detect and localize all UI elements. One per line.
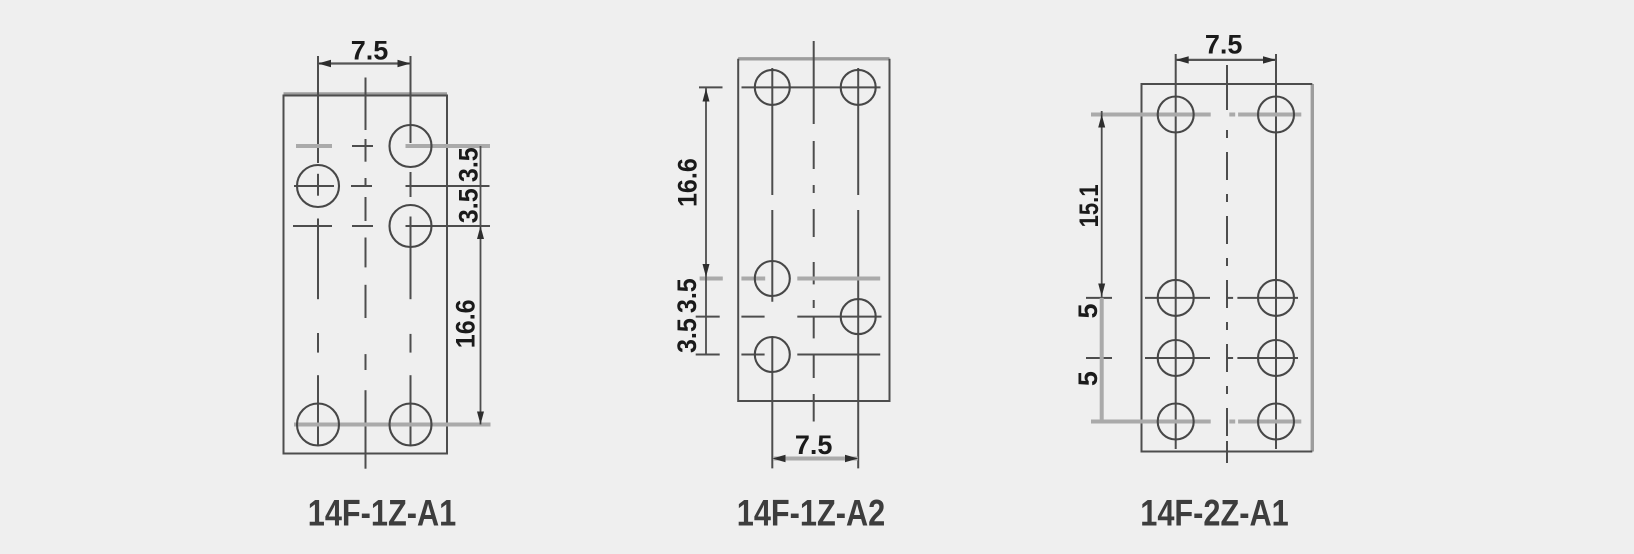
bottom dimension 7.5 D2: right arrow bbox=[845, 455, 858, 462]
hole row3 right D2 bbox=[841, 299, 876, 334]
dimension 7.5 top D3: dimension line bbox=[1176, 59, 1276, 61]
row4 centerline gray line D1 bbox=[294, 423, 491, 427]
dimension 16.6 top arrow D1 bbox=[477, 226, 484, 239]
left chain dimension line D2 bbox=[705, 88, 707, 355]
hole row2 left D3 bbox=[1158, 280, 1194, 316]
svg-text:3.5: 3.5 bbox=[453, 147, 484, 182]
center line (vertical dash-dot) D3 bbox=[1226, 65, 1228, 110]
dimension 15.1 bottom arrow D3 bbox=[1098, 284, 1105, 297]
row1 centerline gray segment right (extension for 3.5) D1 bbox=[406, 144, 491, 148]
hole top-right D1 bbox=[390, 125, 432, 167]
svg-text:14F-2Z-A1: 14F-2Z-A1 bbox=[1140, 493, 1288, 534]
relay outline rectangle 14F-1Z-A2 bbox=[738, 59, 889, 401]
hole middle-right D1 bbox=[390, 205, 432, 247]
svg-text:15.1: 15.1 bbox=[1075, 184, 1105, 227]
row2 centerline dash at center D1 bbox=[351, 185, 372, 187]
row1 extension tick D2 bbox=[699, 86, 723, 88]
center line (vertical dash-dot) D1 bbox=[365, 78, 367, 131]
svg-text:3.5: 3.5 bbox=[671, 318, 702, 353]
hole row1 right D3 bbox=[1258, 97, 1294, 133]
row2 hole crosshair horizontal D1 bbox=[294, 185, 334, 187]
row4 centerline segments D2 bbox=[696, 354, 720, 356]
row2 extension line to dimension D1 bbox=[406, 185, 490, 187]
bottom dimension 7.5 D2: gray dimension line bbox=[773, 457, 858, 461]
dimension 16.6 bottom arrow D1 bbox=[477, 412, 484, 425]
relay outline rectangle 14F-1Z-A1 bbox=[284, 94, 448, 454]
center line (vertical) D2 solid top part bbox=[813, 41, 815, 124]
svg-text:16.6: 16.6 bbox=[672, 158, 703, 207]
dimension 15.1 top arrow D3 bbox=[1098, 115, 1105, 128]
left pin column center line D2 bbox=[771, 68, 773, 195]
svg-text:7.5: 7.5 bbox=[1205, 30, 1243, 60]
row3 centerline segments D2 bbox=[696, 316, 720, 318]
relay outline rectangle 14F-2Z-A1 bbox=[1142, 84, 1313, 452]
row1 centerline gray segment left D1 bbox=[296, 144, 332, 148]
hole row1 left D3 bbox=[1158, 97, 1194, 133]
dimension 7.5 top D3: right arrow bbox=[1263, 56, 1276, 63]
hole middle-left D1 bbox=[297, 165, 339, 207]
hole row1 right D2 bbox=[841, 70, 876, 105]
left pin column center line D3 bbox=[1175, 54, 1177, 449]
svg-text:7.5: 7.5 bbox=[795, 430, 833, 460]
row3 centerline dash at center D1 bbox=[352, 225, 373, 227]
hole row4 left D2 bbox=[755, 337, 790, 372]
row3 left column dash D1 bbox=[293, 225, 332, 227]
hole bottom-left D1 bbox=[297, 404, 339, 446]
center line (vertical dash-dot) D2 bbox=[813, 141, 815, 169]
row2 centerline segments D3 bbox=[1086, 297, 1112, 299]
svg-text:16.6: 16.6 bbox=[450, 299, 481, 348]
hole row2 right D3 bbox=[1258, 280, 1294, 316]
bottom dimension 7.5 D2: left arrow bbox=[772, 455, 785, 462]
dimension 7.5 top D1: left arrow bbox=[318, 60, 331, 67]
row1 crosshair horizontal D2 bbox=[742, 86, 881, 88]
dimension 7.5 top D3: left arrow bbox=[1176, 56, 1189, 63]
hole row1 left D2 bbox=[755, 70, 790, 105]
svg-text:14F-1Z-A2: 14F-1Z-A2 bbox=[737, 493, 885, 534]
row1 gray centerline D3 bbox=[1091, 113, 1211, 117]
hole row4 left D3 bbox=[1158, 404, 1194, 440]
svg-text:3.5: 3.5 bbox=[453, 188, 484, 223]
svg-text:7.5: 7.5 bbox=[351, 36, 389, 66]
right pin column center line D3 bbox=[1275, 54, 1277, 449]
dimension 7.5 top D1: dimension line bbox=[318, 62, 411, 64]
row3 centerline segments D3 bbox=[1086, 357, 1112, 359]
hole row3 left D3 bbox=[1158, 340, 1194, 376]
left dimension 15.1 line D3 bbox=[1101, 111, 1103, 298]
row4 gray centerline D3 bbox=[1091, 420, 1211, 424]
right pin column center line D1 bbox=[410, 56, 412, 143]
dimension 16.6 top arrow D2 bbox=[703, 89, 710, 102]
svg-text:3.5: 3.5 bbox=[671, 278, 702, 313]
svg-text:14F-1Z-A1: 14F-1Z-A1 bbox=[308, 493, 456, 534]
svg-text:5: 5 bbox=[1073, 371, 1103, 386]
row3 extension line to dimension D1 bbox=[406, 225, 491, 227]
right chain dimension line D1 bbox=[480, 146, 482, 425]
hole row3 right D3 bbox=[1258, 340, 1294, 376]
dimension 7.5 top D1: right arrow bbox=[398, 60, 411, 67]
hole row2 left D2 bbox=[755, 261, 790, 296]
dimension 16.6 bottom arrow D2 bbox=[703, 264, 710, 277]
left pin column center line D1 bbox=[317, 56, 319, 163]
hole row4 right D3 bbox=[1258, 404, 1294, 440]
row1 centerline dash at center D1 bbox=[352, 145, 373, 147]
row2 gray centerline segments D2 bbox=[700, 277, 723, 281]
left chain dimension gray line (5/5) D3 bbox=[1100, 298, 1104, 422]
svg-text:5: 5 bbox=[1073, 303, 1103, 318]
right pin column center line D2 bbox=[857, 68, 859, 195]
hole bottom-right D1 bbox=[390, 404, 432, 446]
